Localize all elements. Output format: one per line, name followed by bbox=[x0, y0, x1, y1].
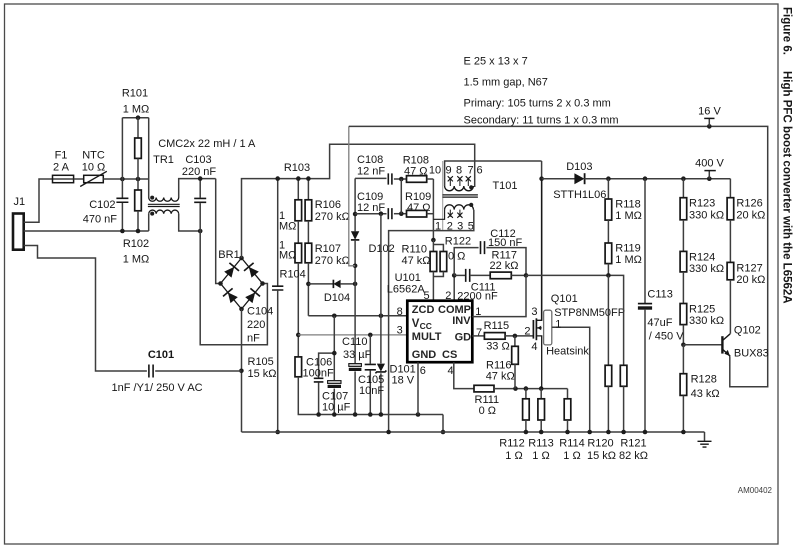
svg-text:J1: J1 bbox=[14, 196, 26, 208]
svg-text:Heatsink: Heatsink bbox=[546, 346, 589, 358]
resistor R116 bbox=[514, 336, 516, 346]
wire CS pin to R111 bbox=[454, 362, 474, 388]
resistor R126 bbox=[729, 179, 731, 198]
resistor R111 bbox=[474, 385, 494, 392]
svg-text:0 Ω: 0 Ω bbox=[448, 251, 465, 263]
capacitor C107 bbox=[328, 381, 341, 384]
ground symbol bbox=[704, 432, 706, 441]
svg-text:BUX83: BUX83 bbox=[734, 348, 769, 360]
resistor R121 bbox=[620, 365, 627, 386]
svg-text:15 kΩ: 15 kΩ bbox=[248, 368, 277, 380]
capacitor C110 bbox=[349, 364, 362, 367]
resistor R109 bbox=[407, 210, 427, 217]
wire J1 pin1 to fuse bbox=[24, 179, 53, 222]
svg-text:47 Ω: 47 Ω bbox=[407, 202, 431, 214]
16V riser wire bbox=[349, 126, 355, 265]
svg-text:9: 9 bbox=[445, 165, 451, 177]
resistor R113 bbox=[540, 389, 542, 399]
T101 secondary winding bbox=[445, 205, 474, 210]
svg-text:100nF: 100nF bbox=[303, 368, 334, 380]
svg-text:TR1: TR1 bbox=[153, 154, 174, 166]
resistor R119 bbox=[607, 220, 609, 243]
svg-text:T101: T101 bbox=[492, 180, 517, 192]
svg-text:R107: R107 bbox=[315, 243, 341, 255]
bridge rectifier BR1 bbox=[221, 258, 263, 309]
zener D101 bbox=[377, 364, 385, 372]
wire bridge DC- down bbox=[241, 309, 243, 432]
svg-text:6: 6 bbox=[420, 365, 426, 377]
svg-text:MΩ: MΩ bbox=[279, 221, 296, 233]
capacitor C105 bbox=[369, 335, 371, 364]
svg-text:F1: F1 bbox=[55, 150, 68, 162]
thermistor NTC bbox=[84, 175, 104, 182]
svg-text:R127: R127 bbox=[736, 263, 762, 275]
svg-text:20 kΩ: 20 kΩ bbox=[736, 210, 765, 222]
svg-text:1nF /Y1/ 250 V AC: 1nF /Y1/ 250 V AC bbox=[112, 382, 203, 394]
svg-text:U101: U101 bbox=[395, 272, 421, 284]
node D102 line from DC+ bbox=[354, 178, 356, 231]
svg-text:MΩ: MΩ bbox=[279, 250, 296, 262]
svg-text:47uF: 47uF bbox=[647, 317, 672, 329]
wire F1 to NTC bbox=[74, 178, 84, 180]
svg-text:270 kΩ: 270 kΩ bbox=[315, 255, 350, 267]
svg-text:ZCD: ZCD bbox=[412, 304, 435, 316]
svg-text:INV: INV bbox=[452, 315, 471, 327]
capacitor C109 bbox=[355, 213, 386, 215]
svg-text:Secondary: 11 turns 1 x 0.3 mm: Secondary: 11 turns 1 x 0.3 mm bbox=[464, 115, 619, 127]
svg-text:3: 3 bbox=[397, 325, 403, 337]
svg-text:10: 10 bbox=[429, 165, 441, 177]
svg-text:L6562A: L6562A bbox=[387, 284, 426, 296]
svg-text:CS: CS bbox=[442, 349, 457, 361]
resistor R127 bbox=[729, 220, 731, 263]
svg-text:22 kΩ: 22 kΩ bbox=[490, 260, 519, 272]
svg-text:R101: R101 bbox=[122, 88, 148, 100]
svg-text:R103: R103 bbox=[284, 162, 310, 174]
capacitor C103 bbox=[199, 179, 201, 198]
svg-text:6: 6 bbox=[476, 165, 482, 177]
capacitor C112 bbox=[454, 248, 478, 276]
svg-text:C104: C104 bbox=[247, 306, 273, 318]
svg-text:12 nF: 12 nF bbox=[357, 202, 385, 214]
svg-text:NTC: NTC bbox=[82, 150, 105, 162]
svg-text:R120: R120 bbox=[587, 438, 613, 450]
INV node wire bbox=[526, 275, 624, 365]
svg-text:8: 8 bbox=[397, 306, 403, 318]
diode D102 bbox=[351, 231, 359, 239]
svg-text:BR1: BR1 bbox=[218, 249, 239, 261]
T101 primary taps bbox=[449, 178, 451, 187]
svg-text:MULT: MULT bbox=[412, 331, 442, 343]
svg-text:D104: D104 bbox=[324, 292, 350, 304]
resistor R128 bbox=[682, 345, 684, 374]
svg-text:15 kΩ: 15 kΩ bbox=[587, 450, 616, 462]
svg-text:18 V: 18 V bbox=[392, 375, 415, 387]
svg-text:2: 2 bbox=[524, 326, 530, 338]
svg-text:150 nF: 150 nF bbox=[488, 237, 523, 249]
svg-text:GND: GND bbox=[412, 349, 437, 361]
svg-text:C102: C102 bbox=[89, 199, 115, 211]
svg-text:R110: R110 bbox=[402, 244, 427, 256]
svg-text:330 kΩ: 330 kΩ bbox=[689, 210, 724, 222]
svg-text:R122: R122 bbox=[445, 236, 471, 248]
svg-text:220 nF: 220 nF bbox=[182, 166, 217, 178]
wire NTC to filter node bbox=[103, 178, 148, 180]
svg-text:82 kΩ: 82 kΩ bbox=[619, 450, 648, 462]
resistor R102 bbox=[137, 158, 139, 190]
T101 core bbox=[443, 195, 478, 197]
node top of R101 bbox=[122, 117, 148, 119]
wire GND pin bbox=[417, 362, 419, 414]
svg-text:47 kΩ: 47 kΩ bbox=[402, 255, 431, 267]
capacitor C106 bbox=[333, 316, 335, 381]
svg-text:1 Ω: 1 Ω bbox=[532, 450, 549, 462]
svg-text:1 MΩ: 1 MΩ bbox=[123, 104, 150, 116]
capacitor C101 bbox=[149, 365, 153, 378]
wire COMP stub bbox=[453, 275, 455, 300]
wire phase to bridge left bbox=[216, 179, 221, 284]
resistor R115 bbox=[484, 333, 505, 340]
T101 primary winding bbox=[445, 161, 542, 186]
svg-text:Q101: Q101 bbox=[551, 293, 578, 305]
svg-text:D103: D103 bbox=[566, 161, 592, 173]
svg-text:1 MΩ: 1 MΩ bbox=[615, 210, 642, 222]
svg-text:R119: R119 bbox=[615, 243, 640, 255]
400V terminal bbox=[708, 171, 710, 179]
resistor R110 bbox=[432, 240, 434, 252]
resistor R103 bbox=[297, 179, 299, 200]
svg-text:CMC2x 22 mH / 1 A: CMC2x 22 mH / 1 A bbox=[158, 138, 256, 150]
common mode choke TR1 bbox=[148, 118, 150, 198]
resistor R118 bbox=[607, 179, 609, 199]
svg-text:E 25 x 13 x 7: E 25 x 13 x 7 bbox=[464, 56, 528, 68]
svg-text:R104: R104 bbox=[280, 269, 306, 281]
svg-text:1: 1 bbox=[555, 319, 561, 331]
svg-text:330 kΩ: 330 kΩ bbox=[689, 263, 724, 275]
wire J1 pin2 neutral bbox=[24, 230, 149, 232]
capacitor C104 bbox=[277, 179, 279, 286]
svg-text:10 µF: 10 µF bbox=[322, 402, 351, 414]
svg-text:1 MΩ: 1 MΩ bbox=[615, 254, 642, 266]
wire R108/R109 to pin10 node bbox=[432, 179, 434, 240]
16V rail bbox=[349, 126, 768, 386]
svg-text:43 kΩ: 43 kΩ bbox=[691, 388, 720, 400]
svg-text:C110: C110 bbox=[342, 336, 367, 348]
resistor R125 bbox=[682, 272, 684, 304]
wire neutral to bridge right bbox=[200, 231, 267, 345]
diode D104 bbox=[308, 283, 333, 285]
svg-text:470 nF: 470 nF bbox=[83, 213, 118, 225]
capacitor C113 bbox=[644, 179, 646, 303]
upper ground rail bbox=[442, 415, 444, 433]
svg-text:R114: R114 bbox=[559, 438, 584, 450]
resistor R120 bbox=[607, 275, 609, 365]
svg-text:Q102: Q102 bbox=[734, 325, 761, 337]
resistor R122 bbox=[433, 245, 443, 252]
wire earth from J1 pin3 bbox=[24, 246, 147, 372]
wire Q101 tab to rail bbox=[552, 327, 590, 432]
svg-text:400 V: 400 V bbox=[695, 158, 724, 170]
T101 secondary taps bbox=[449, 210, 451, 217]
svg-text:1 Ω: 1 Ω bbox=[563, 450, 580, 462]
transistor Q102 bbox=[683, 344, 722, 346]
svg-text:CC: CC bbox=[420, 321, 432, 331]
resistor R106 bbox=[307, 179, 309, 200]
wire C108/C109 strap bbox=[400, 179, 402, 214]
svg-text:AM00402: AM00402 bbox=[738, 486, 773, 495]
resistor R114 bbox=[567, 389, 569, 399]
svg-text:STTH1L06: STTH1L06 bbox=[553, 189, 606, 201]
svg-text:12 nF: 12 nF bbox=[357, 166, 385, 178]
svg-text:nF: nF bbox=[247, 333, 260, 345]
svg-text:R126: R126 bbox=[736, 198, 762, 210]
resistor R108 bbox=[407, 176, 427, 183]
svg-text:R128: R128 bbox=[691, 374, 717, 386]
svg-text:STP8NM50FP: STP8NM50FP bbox=[554, 307, 625, 319]
svg-text:R106: R106 bbox=[315, 199, 341, 211]
svg-text:10nF: 10nF bbox=[359, 385, 384, 397]
svg-text:270 kΩ: 270 kΩ bbox=[315, 211, 350, 223]
lower ground rail bbox=[242, 431, 705, 433]
svg-text:R112: R112 bbox=[499, 438, 524, 450]
svg-text:1 Ω: 1 Ω bbox=[505, 450, 522, 462]
svg-text:7: 7 bbox=[476, 327, 482, 339]
resistor R123 bbox=[682, 179, 684, 198]
svg-text:/ 450 V: / 450 V bbox=[649, 331, 685, 343]
svg-text:R121: R121 bbox=[620, 438, 646, 450]
svg-text:C113: C113 bbox=[647, 289, 672, 301]
svg-text:1.5 mm gap, N67: 1.5 mm gap, N67 bbox=[464, 77, 548, 89]
svg-text:5: 5 bbox=[423, 290, 429, 302]
svg-text:R124: R124 bbox=[689, 252, 715, 264]
svg-text:R118: R118 bbox=[615, 199, 640, 211]
svg-text:8: 8 bbox=[456, 165, 462, 177]
svg-text:R125: R125 bbox=[689, 304, 715, 316]
svg-text:Figure 6.: Figure 6. bbox=[781, 7, 793, 55]
connector J1 bbox=[13, 214, 24, 250]
resistor R104 bbox=[297, 221, 299, 243]
svg-text:2: 2 bbox=[445, 290, 451, 302]
wire INV pin bbox=[472, 275, 526, 316]
resistor R107 bbox=[307, 221, 309, 243]
capacitor C108 bbox=[355, 177, 386, 179]
svg-text:R113: R113 bbox=[528, 438, 553, 450]
svg-text:47 Ω: 47 Ω bbox=[404, 166, 428, 178]
svg-text:16 V: 16 V bbox=[698, 106, 721, 118]
resistor R101 bbox=[137, 118, 139, 138]
diode D103 bbox=[542, 178, 575, 180]
transformer T101 box left edge bbox=[442, 161, 444, 231]
svg-text:1 MΩ: 1 MΩ bbox=[123, 254, 150, 266]
resistor R117 bbox=[490, 272, 511, 279]
VCC rail wire (pin 8) bbox=[308, 315, 407, 317]
resistor R124 bbox=[682, 220, 684, 252]
transistor Q101 bbox=[532, 320, 534, 339]
svg-text:4: 4 bbox=[531, 341, 537, 353]
svg-text:47 kΩ: 47 kΩ bbox=[486, 371, 515, 383]
svg-text:3: 3 bbox=[531, 306, 537, 318]
svg-text:220: 220 bbox=[247, 319, 265, 331]
MULT wire (pin 3) bbox=[298, 334, 407, 336]
T101 secondary left lead bbox=[433, 210, 444, 220]
svg-text:High PFC boost converter with: High PFC boost converter with the L6562A bbox=[781, 71, 793, 304]
wire bridge DC+ riser bbox=[242, 144, 475, 258]
svg-text:C108: C108 bbox=[357, 154, 383, 166]
Q101 package bbox=[544, 310, 552, 345]
16V terminal bbox=[708, 118, 710, 126]
wire TR1 neutral out bbox=[179, 214, 201, 231]
svg-text:330 kΩ: 330 kΩ bbox=[689, 315, 724, 327]
svg-text:R123: R123 bbox=[689, 198, 715, 210]
svg-text:GD: GD bbox=[455, 332, 472, 344]
op-amp U101 L6562A bbox=[407, 301, 472, 363]
capacitor C111 bbox=[454, 274, 466, 276]
svg-text:V: V bbox=[412, 318, 420, 330]
svg-text:Primary: 105 turns 2 x 0.3 mm: Primary: 105 turns 2 x 0.3 mm bbox=[464, 98, 611, 110]
drain node wire (T101 to D103/Q101) bbox=[541, 161, 543, 320]
svg-text:0 Ω: 0 Ω bbox=[479, 405, 496, 417]
zener D101 line bbox=[380, 214, 382, 364]
resistor R105 bbox=[295, 357, 302, 377]
resistor R112 bbox=[525, 389, 527, 399]
fuse F1 bbox=[53, 175, 74, 182]
svg-text:C101: C101 bbox=[148, 349, 174, 361]
svg-text:10 Ω: 10 Ω bbox=[82, 161, 106, 173]
svg-text:20 kΩ: 20 kΩ bbox=[736, 274, 765, 286]
svg-text:33 µF: 33 µF bbox=[343, 349, 372, 361]
svg-text:R102: R102 bbox=[123, 238, 149, 250]
svg-text:R115: R115 bbox=[484, 320, 509, 332]
svg-text:C103: C103 bbox=[185, 154, 211, 166]
svg-text:33 Ω: 33 Ω bbox=[486, 341, 510, 353]
wire TR1 phase out bbox=[179, 179, 216, 198]
svg-text:R105: R105 bbox=[248, 356, 274, 368]
capacitor C102 bbox=[121, 118, 123, 198]
wire GD pin bbox=[472, 335, 484, 337]
svg-text:4: 4 bbox=[447, 365, 453, 377]
svg-text:7: 7 bbox=[467, 165, 473, 177]
T101 secondary return wire bbox=[389, 210, 474, 432]
svg-text:2 A: 2 A bbox=[53, 161, 70, 173]
